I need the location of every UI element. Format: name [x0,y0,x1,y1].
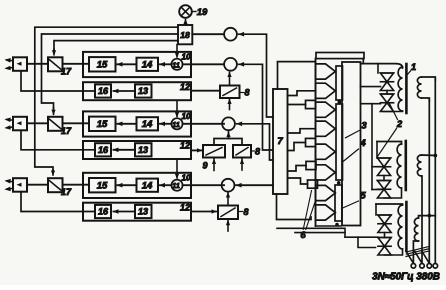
feedback wire to summer ch2 from unit 7 [237,124,274,160]
gate stub group2 upper [372,166,381,168]
leader 6 to gate 6-3 [306,202,315,230]
svg-text:13: 13 [138,145,148,155]
sync wire to thyristor group 3a [345,236,378,238]
svg-text:17: 17 [61,66,72,76]
transformer T2 primary [397,144,401,188]
wire unit12 ch3 to corrector 8 [191,211,216,213]
detector 11 (channel 1) [171,59,182,70]
driver stage triangle 6 [316,165,336,180]
output arrow a of vibrator V3 [7,180,14,183]
mains terminal 3 [427,264,432,269]
svg-text:15: 15 [97,181,108,192]
breaker pole 3 [422,251,429,263]
leader to label 8 ch2 [252,150,255,152]
block 15 (channel 1) [89,57,116,71]
svg-text:15: 15 [97,60,108,71]
wire box15 to box17 (channel 3) [63,184,90,186]
driver stage triangle 3 [316,102,336,117]
setpoint arrow into corrector 8 ch2 [241,159,243,170]
feedback arrow into summer (channel 3) [236,183,242,188]
wire unit7 bottom to stage 8 [277,194,312,220]
amplifier column 5 [335,185,342,221]
output arrow a of vibrator V2 [7,119,14,122]
block 15 (channel 2) [89,117,116,131]
amplifier column 4b [336,104,343,180]
wire T3 secondary top [419,216,436,218]
transformer T1 core [405,64,408,113]
unit 3 top bar right drop [362,59,364,64]
leader label 3 [346,131,360,138]
driver stage triangle 2 [316,83,336,98]
block 16 (channel 1) [95,84,111,97]
summer node (channel 2) [222,117,235,130]
unit 12 frame channel 1 (blocks 16,13) [83,82,191,100]
transformer T1 primary [398,67,402,111]
svg-text:18: 18 [180,30,190,40]
wire block14 to block15 (channel 1) [118,63,137,65]
svg-text:12: 12 [180,141,190,151]
svg-text:10: 10 [182,53,191,62]
svg-text:6: 6 [300,230,306,241]
node dot r2-r3 [337,181,341,185]
wire box15 to box17 (channel 2) [63,122,90,124]
wire circle11 to block14 (channel 1) [160,63,171,65]
output line L2 [428,99,430,263]
transformer T2 secondary [417,155,421,176]
wire box17 to vibrator V2 [27,122,48,124]
summer node (channel 3) [222,179,235,192]
svg-text:9: 9 [202,161,207,171]
vibrator V2 (input transducer box) [13,117,27,131]
block 16 (channel 2) [95,143,111,156]
corrector 8 (channel 2) [233,145,251,158]
wire unit12 ch2 to corrector 9 [191,149,202,151]
svg-text:16: 16 [98,145,109,155]
wire primary1 top to block 3 [361,64,403,68]
svg-text:3: 3 [361,121,367,132]
unit 3 top bar [316,53,364,59]
svg-text:11: 11 [172,60,180,69]
junction dot T2 top [433,154,437,158]
unit frame channel 3 (blocks 15,14,11) [83,173,191,198]
wire unit7 top to stage 1 [278,62,316,89]
svg-text:17: 17 [61,187,72,197]
leader to label 8 ch3 [239,211,243,213]
driver stage triangle 4 [316,121,336,136]
unit 12 frame channel 3 (blocks 16,13) [83,203,191,221]
gate key 6-1 [306,100,316,108]
unit frame channel 2 (blocks 15,14,11) [83,111,191,136]
wire detector11 to summer (channel 1) [183,63,224,65]
wire detector11 to summer (channel 2) [183,123,224,125]
block 13 (channel 1) [135,84,152,97]
svg-text:10: 10 [182,112,191,121]
leader label 2 to group1 [390,104,398,120]
feedback arrow into top summer [238,32,244,37]
leader label 4 [343,149,359,162]
leader 6 to gate 6-4 [303,191,311,230]
controller 17 (channel 1) [48,57,63,71]
monitor wire channel 2 to block 18 [42,34,179,110]
feedback arrow into summer (channel 2) [236,122,242,127]
wire unit7 to gate 6-4 [288,178,308,184]
link thyristors group3 [384,233,386,238]
phase distributor 7 [273,89,288,194]
wire primary2 top [377,142,402,145]
wire unit7 to gate 6-3 [288,166,307,172]
feedback wire to top summer from unit 7 [239,34,274,117]
former block 3 body [342,62,361,226]
wire T2 secondary bottom [421,176,424,263]
gate stub group2 lower [372,189,381,191]
svg-text:3N≈50Гц 380В: 3N≈50Гц 380В [372,271,440,282]
wire block13 to block16 (channel 2) [114,149,136,151]
corrector 8 (channel 3) [218,206,238,220]
svg-text:1: 1 [411,62,416,73]
transformer T2 core [404,141,407,190]
svg-text:19: 19 [197,7,208,18]
wire 10 into detector 11 (channel 1) [176,45,178,57]
svg-text:8: 8 [244,88,249,98]
feedback wire to summer ch1 from unit 7 [239,64,274,150]
wire unit7 to stage 4 [288,129,316,133]
wire unit7 to gate 6-1 [288,104,306,106]
wire block14 to block15 (channel 3) [118,184,137,186]
wire corrector8 ch1 to summer [229,73,231,86]
driver stage triangle 8 [316,205,336,220]
svg-text:15: 15 [97,119,108,130]
wire unit7 to stage 2 [288,91,316,96]
svg-text:13: 13 [138,207,148,217]
wire box15 to box17 (channel 1) [63,63,90,65]
arrow inside vibrator V3 [17,183,22,187]
wire thyristor group1 bottom to primary [383,111,403,113]
svg-text:13: 13 [138,86,148,96]
alarm block 18 [178,25,192,44]
detector 11 (channel 2) [171,118,182,129]
wire thyristor group2 bottom to primary [384,188,402,198]
thyristor pair 2 group3 upper [378,214,391,216]
unit frame channel 1 (blocks 15,14,11) [83,52,191,77]
monitor wire channel 1 to block 18 [54,41,178,51]
arrow inside vibrator V2 [17,121,22,125]
svg-text:16: 16 [98,86,109,96]
svg-text:11: 11 [172,181,180,190]
gate wire group1 upper [361,86,381,88]
drop wire group2 top [376,142,378,159]
thyristor pair 2 group2 lower [377,180,390,182]
wire T1 secondary top [422,77,436,80]
sync wire lower a [277,228,345,237]
driver stage triangle 7 [316,185,336,200]
mains terminal 2 [420,264,425,269]
drop wire group3 top [375,204,377,215]
wire box17 to vibrator V1 [27,63,48,65]
driver stage triangle 1 [316,64,336,79]
node dot r1-r2 [338,100,342,104]
amplifier column 4a [336,66,343,100]
svg-text:17: 17 [61,126,72,136]
wire block13 to block16 (channel 1) [114,90,136,92]
output arrow b of vibrator V3 [7,187,14,190]
sync wire lower b [295,232,345,234]
feedback arrow into summer (channel 1) [238,62,244,67]
vibrator V3 (input transducer box) [13,178,27,192]
block 14 (channel 3) [137,179,159,192]
corrector 8 (channel 1) [220,86,240,99]
block 15 (channel 3) [89,178,116,192]
output line L1 (right) [434,79,436,263]
svg-text:8: 8 [243,207,248,217]
wire unit7 to gate 6-2 [288,143,306,151]
corrector 9 (channel 2) [203,145,225,158]
link thyristors group2 [383,176,385,181]
block 13 (channel 3) [135,205,152,218]
gate key 6-3 [306,161,316,169]
feedback wire to summer ch3 from unit 7 [236,184,273,186]
svg-text:8: 8 [255,147,260,157]
wire unit12 ch1 to corrector 8 [191,90,220,92]
wire box17 to vibrator V3 [27,184,48,186]
setpoint arrow into corrector 8 ch3 [227,221,229,232]
unit 12 frame channel 2 (blocks 16,13) [83,141,191,159]
arrow inside vibrator V1 [17,62,22,66]
svg-text:12: 12 [180,202,190,212]
gate wire group1 lower [361,103,381,105]
svg-text:16: 16 [98,207,109,217]
output arrow b of vibrator V1 [7,67,14,70]
transformer T1 secondary [417,77,421,98]
monitor wire channel 3 to block 18 [35,27,178,171]
svg-text:12: 12 [180,82,190,92]
controller 17 (channel 3) [48,178,63,192]
wire detector11 to summer (channel 3) [183,184,224,186]
wire block16 to vibrator V3 bottom [21,192,95,212]
vibrator V1 (input transducer box) [13,57,27,71]
breaker link bar [406,251,428,256]
transformer T3 primary [398,205,402,249]
block 14 (channel 1) [137,58,159,71]
unit 3 left rail [315,59,317,226]
breaker pole 1 [406,251,413,263]
wire 10 into detector 11 (channel 2) [176,101,178,116]
wire thyristor group3 bottom to primary [385,249,403,255]
svg-text:11: 11 [172,120,180,129]
wire circle11 to block14 (channel 2) [160,123,171,125]
unit 3 bottom edge [316,225,342,227]
transformer T3 secondary [414,218,418,241]
thyristor pair 2 group3 lower [378,237,391,239]
detector 11 (channel 3) [171,180,182,191]
gate bus vertical [371,104,373,190]
tee wire summer ch2 to correctors [228,131,230,139]
breaker pole 2 [415,251,422,263]
wire block16 to vibrator V1 bottom [21,71,95,91]
drop wire to thyristor group1 top [377,64,379,73]
block 16 (channel 3) [95,205,111,218]
svg-text:7: 7 [277,136,283,147]
svg-text:14: 14 [142,180,153,191]
top summer node [224,28,237,41]
svg-text:4: 4 [359,138,366,149]
thyristor pair 2 group1 lower [380,93,393,95]
setpoint arrow into corrector 8 ch1 [229,100,231,110]
wire block13 to block16 (channel 3) [114,211,136,213]
wire block16 to vibrator V2 bottom [21,130,95,150]
wire 10 into detector 11 (channel 3) [176,160,178,178]
block 13 (channel 2) [135,143,152,156]
thyristor pair 2 group1 upper [380,72,393,74]
sync wire to thyristor group 3b [358,237,376,247]
leader to label 8 ch1 [240,92,244,94]
junction dot T3 top [427,214,431,218]
wire block14 to block15 (channel 2) [118,123,137,125]
gate key 6-2 [306,138,316,146]
transformer T3 core [405,202,408,251]
leader label 1 [406,71,411,76]
summer node (channel 1) [224,58,237,71]
leader label 2 to group2 [378,129,397,157]
wire circle11 to block14 (channel 3) [160,184,171,186]
wire T1 secondary bottom [422,98,430,101]
mains terminal 4 [433,264,438,269]
controller 17 (channel 2) [48,117,63,131]
output arrow b of vibrator V2 [7,126,14,129]
gate key 6-4 [308,180,318,188]
wire box18 to lamp 19 [185,20,187,26]
wire 18 output to top summer [192,33,224,35]
leader label 5 [342,201,359,209]
wire T3 secondary bottom [413,241,418,263]
driver stage triangle 5 [316,144,336,159]
signal lamp 19 [179,5,192,18]
wire T2 secondary top [422,154,436,157]
wire corrector8 ch3 to summer [227,193,229,206]
link thyristors group1 [386,91,388,95]
wire primary3 top [376,204,403,205]
block 14 (channel 2) [137,117,159,130]
leader dash to label 19 [192,11,196,13]
svg-text:10: 10 [182,173,191,182]
node dot r3 bottom [335,223,339,227]
output arrow a of vibrator V1 [7,59,14,62]
svg-text:14: 14 [142,60,153,71]
svg-text:14: 14 [142,119,153,130]
mains terminal 1 [411,264,416,269]
thyristor pair 2 group2 upper [377,157,390,159]
svg-text:5: 5 [360,191,366,202]
setpoint arrow into corrector 9 ch2 [213,159,215,171]
